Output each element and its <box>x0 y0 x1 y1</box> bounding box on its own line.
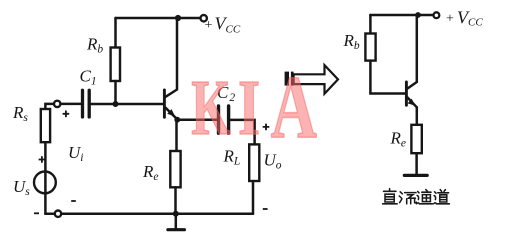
svg-text:A: A <box>271 56 317 156</box>
svg-text:Rb: Rb <box>343 31 360 52</box>
svg-text:K: K <box>191 65 231 152</box>
hanzi 流 <box>399 192 416 204</box>
plus Us <box>39 156 46 163</box>
wire emitter to C2 <box>177 119 217 122</box>
wire bottom rail <box>45 213 253 216</box>
minus output <box>263 208 268 210</box>
transistor Q1 emitter arrow <box>167 109 175 117</box>
ground bar <box>168 228 185 231</box>
hanzi 通 <box>417 190 433 204</box>
node base / Rb <box>113 101 119 107</box>
ground stub <box>175 214 178 230</box>
resistor Rb (left) <box>111 48 120 82</box>
svg-text:VCC: VCC <box>457 8 483 29</box>
plus input top <box>63 111 70 118</box>
svg-text:+: + <box>205 18 213 33</box>
transistor Q1 collector <box>166 18 177 97</box>
resistor Re (right) <box>411 125 421 153</box>
capacitor C1 <box>83 90 90 117</box>
wire Rb top lead (right) <box>369 15 372 34</box>
svg-text:VCC: VCC <box>215 14 241 36</box>
wire Rs to Us source <box>44 142 47 172</box>
svg-text:Rs: Rs <box>12 103 28 124</box>
wire Rb bottom lead <box>114 81 117 104</box>
svg-text:Re: Re <box>390 128 407 149</box>
transistor Q2 emitter <box>408 98 417 108</box>
wire Rb top lead <box>114 18 117 48</box>
wire emitter down to Re <box>175 119 178 151</box>
node top rail right <box>415 12 421 18</box>
ground bar (right) <box>404 174 427 177</box>
plus output <box>263 124 270 131</box>
wire Re bottom lead <box>174 187 177 214</box>
node ground junction <box>173 211 179 217</box>
minus Ui <box>71 200 76 202</box>
hanzi 道 <box>434 190 450 204</box>
terminal +Vcc (right) <box>434 12 440 18</box>
wire Rs branch corner <box>45 104 54 109</box>
wire top rail right circuit <box>370 14 433 17</box>
arrow tail bar 2 <box>291 72 294 86</box>
svg-text:Us: Us <box>13 177 30 198</box>
wire RL top lead / output corner <box>230 120 254 144</box>
transistor Q2 base bar <box>405 82 408 105</box>
wire RL bottom lead <box>252 181 255 214</box>
wire Rb bottom lead to base (right) <box>370 61 405 94</box>
terminal input top <box>54 101 60 107</box>
resistor Rb (right) <box>365 34 375 61</box>
wire Re bottom lead (right) <box>415 153 418 175</box>
wire through Us to bottom rail <box>44 172 47 214</box>
resistor RL <box>249 144 259 181</box>
transistor Q2 collector <box>408 15 417 89</box>
svg-text:C1: C1 <box>80 66 97 87</box>
wire emitter to Re (right) <box>416 107 419 125</box>
terminal +Vcc (left) <box>201 15 207 21</box>
node emitter junction <box>174 117 180 123</box>
svg-text:Rb: Rb <box>86 34 103 55</box>
svg-text:+: + <box>446 12 454 27</box>
resistor Rs <box>41 109 50 142</box>
hanzi 直 <box>383 189 398 204</box>
terminal input bottom <box>55 211 61 217</box>
svg-text:Ui: Ui <box>68 143 83 164</box>
svg-text:Re: Re <box>142 162 159 183</box>
node top rail / collector <box>175 15 181 21</box>
resistor Re (left) <box>170 151 180 187</box>
capacitor C2 <box>219 106 229 133</box>
wire top rail left circuit <box>116 17 201 20</box>
svg-text:I: I <box>238 64 260 151</box>
transistor Q1 base bar <box>163 90 166 117</box>
arrow tail bar 1 <box>285 72 289 86</box>
arrow hollow body <box>294 65 338 94</box>
minus Us <box>34 212 39 214</box>
transistor Q2 emitter arrow <box>408 99 416 106</box>
source Us circle <box>34 172 56 194</box>
wire input to C1 <box>61 103 81 106</box>
wire base rail from C1 to transistor <box>91 103 163 106</box>
transistor Q1 emitter <box>166 108 178 120</box>
